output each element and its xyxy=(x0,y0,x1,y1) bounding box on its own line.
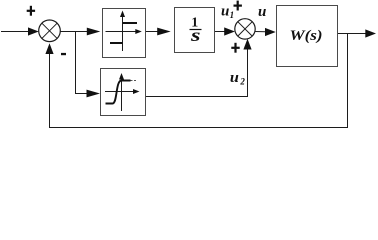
svg-text:W(s): W(s) xyxy=(290,28,323,44)
svg-text:2: 2 xyxy=(239,76,245,86)
svg-text:u: u xyxy=(221,3,229,19)
svg-text:u: u xyxy=(258,4,266,20)
svg-text:u: u xyxy=(230,70,239,86)
svg-text:1: 1 xyxy=(230,10,235,20)
svg-text:s: s xyxy=(190,25,201,45)
